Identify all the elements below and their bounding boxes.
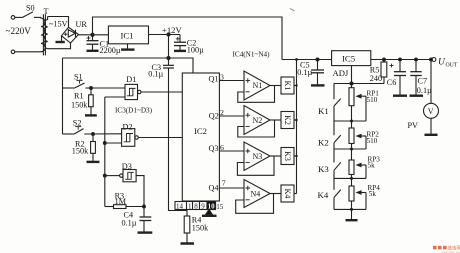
resistor R3 <box>105 205 144 209</box>
C6 plus mark <box>390 64 394 68</box>
switch S1 <box>63 83 126 88</box>
node C7 junction <box>415 58 418 61</box>
watermark logo <box>433 245 460 253</box>
node DC+ junction <box>91 33 94 36</box>
node C3 junction <box>167 56 170 59</box>
svg-text:Q2: Q2 <box>209 111 219 120</box>
wire +12V logic rail <box>63 58 194 73</box>
svg-text:K2: K2 <box>283 115 292 125</box>
node R5 top junction <box>383 58 386 61</box>
resistor R2 <box>91 134 96 161</box>
op-amp N3 <box>244 142 270 171</box>
svg-text:15: 15 <box>216 203 224 211</box>
node +12V junction <box>167 33 170 36</box>
svg-text:0.1µ: 0.1µ <box>122 218 137 227</box>
svg-text:5k: 5k <box>368 161 376 169</box>
svg-text:~15V: ~15V <box>49 20 68 29</box>
svg-text:T: T <box>44 7 49 16</box>
node D3 input junction <box>103 174 106 177</box>
scan mark top <box>290 9 295 12</box>
wire PV to ground <box>430 118 432 134</box>
svg-text:+12V: +12V <box>162 25 182 35</box>
regulator IC1 <box>108 26 148 44</box>
AC input terminal bottom <box>11 50 15 54</box>
ground at R2 <box>87 161 100 163</box>
svg-text:N2: N2 <box>253 116 263 125</box>
node C5 junction <box>316 58 319 61</box>
svg-text:510: 510 <box>367 96 378 104</box>
relay coil K1 <box>281 77 294 94</box>
node R2 junction <box>92 133 95 136</box>
svg-text:N3: N3 <box>253 152 263 161</box>
svg-text:510: 510 <box>367 137 378 145</box>
svg-text:10: 10 <box>208 203 216 211</box>
svg-text:14: 14 <box>176 203 184 211</box>
svg-text:D2: D2 <box>123 122 133 131</box>
gate D3 <box>120 170 137 182</box>
node R1 junction <box>90 87 93 90</box>
wire N4 feedback loop <box>236 194 274 214</box>
svg-text:K3: K3 <box>318 164 329 174</box>
gate D2 <box>122 129 139 147</box>
wire AC top lead <box>15 16 23 18</box>
svg-text:9: 9 <box>201 203 205 211</box>
ground at IC2 pins 8 9 10 <box>202 210 217 216</box>
svg-text:K1: K1 <box>318 106 329 116</box>
transformer T secondary winding <box>45 17 48 49</box>
potentiometer RP3 <box>349 149 366 178</box>
resistor R5 <box>381 60 387 84</box>
svg-text:S0: S0 <box>26 4 35 13</box>
svg-text:~220V: ~220V <box>6 26 32 36</box>
svg-text:C6: C6 <box>387 78 397 87</box>
svg-text:V: V <box>428 107 434 116</box>
ground at C6 <box>393 94 407 96</box>
ground at C1 <box>87 50 99 52</box>
svg-text:1M: 1M <box>115 197 127 206</box>
counter IC2 <box>182 73 219 201</box>
wire IC2 Q2 pin2 <box>219 115 244 117</box>
potentiometer RP2 <box>349 121 366 149</box>
wire D1 lower input <box>105 96 125 98</box>
wire D2 lower input <box>105 142 122 144</box>
svg-text:OUT: OUT <box>446 62 458 68</box>
relay coil K2 <box>281 112 294 129</box>
svg-text:IC1: IC1 <box>121 31 134 41</box>
svg-text:Q1: Q1 <box>209 75 219 84</box>
wire bridge plus to IC1 <box>79 34 109 36</box>
contact K1 <box>334 99 341 121</box>
potentiometer RP4 <box>349 178 366 209</box>
wire IC2 Q1 pin3 <box>219 80 244 82</box>
wire D2 output to IC2 <box>138 137 182 139</box>
wire IC1 output <box>149 34 181 36</box>
node C6 junction <box>399 58 402 61</box>
wire N3 output <box>270 155 281 157</box>
svg-text:K3: K3 <box>283 151 292 161</box>
wire ADJ node horizontal <box>334 83 384 85</box>
ground at bridge minus <box>56 36 65 42</box>
S2 button mark <box>75 127 81 130</box>
wire K2 to supply rail <box>294 119 297 121</box>
svg-text:R1: R1 <box>74 92 84 101</box>
svg-text:0.1µ: 0.1µ <box>297 68 312 77</box>
wire node2 <box>334 148 366 150</box>
transformer T core <box>43 14 45 55</box>
svg-text:6: 6 <box>220 143 224 152</box>
wire +12V drop to logic rail <box>168 35 170 59</box>
wire to voltmeter PV <box>430 60 432 104</box>
IC3 input bus vertical <box>104 97 106 207</box>
wire IC5 output <box>371 59 432 61</box>
op-amp N4 <box>244 180 270 208</box>
potentiometer RP1 <box>349 88 366 121</box>
capacitor C4 <box>140 217 152 232</box>
svg-text:S2: S2 <box>73 118 82 127</box>
bridge rectifier UR diamond <box>62 27 79 43</box>
AC input terminal top <box>11 16 15 20</box>
svg-text:150k: 150k <box>192 224 209 233</box>
transformer T primary winding <box>41 17 45 51</box>
IC1 ground pin <box>121 44 135 50</box>
wire secondary bottom to bridge <box>48 43 71 49</box>
svg-text:5k: 5k <box>369 190 377 198</box>
wire D3 input <box>105 175 120 177</box>
svg-text:2200µ: 2200µ <box>100 46 121 55</box>
op-amp N2 <box>244 106 270 135</box>
svg-text:K1: K1 <box>283 81 292 91</box>
wire N2 feedback loop <box>238 120 275 137</box>
svg-text:8: 8 <box>194 203 198 211</box>
svg-text:Q4: Q4 <box>209 184 219 193</box>
svg-text:K4: K4 <box>283 189 292 199</box>
svg-text:IC5: IC5 <box>342 53 356 63</box>
capacitor C5 <box>311 60 324 85</box>
ground at R4 <box>181 242 195 245</box>
bridge diode symbol <box>68 30 75 37</box>
wire D3 output down <box>136 176 144 217</box>
wire node3 <box>334 177 366 179</box>
relay coil K4 <box>281 185 294 202</box>
svg-text:D3: D3 <box>122 162 132 171</box>
ground at RP chain <box>346 209 358 220</box>
switch S2 <box>63 129 122 134</box>
svg-text:150k: 150k <box>72 146 89 155</box>
wire node1 <box>334 120 366 122</box>
svg-text:2: 2 <box>220 108 224 117</box>
label Uout <box>438 57 458 68</box>
wire K3 to supply rail <box>294 155 297 157</box>
wire relay supply rail <box>296 60 298 194</box>
svg-text:N1: N1 <box>253 81 263 90</box>
output terminal Uout <box>432 58 436 62</box>
ground at C7 <box>410 94 424 96</box>
wire raw DC riser to top rail <box>93 17 283 60</box>
bridge plus mark <box>64 33 67 36</box>
C2 plus mark <box>176 37 180 41</box>
wire N1 feedback loop <box>238 86 275 103</box>
ground at C4 <box>138 231 153 233</box>
svg-text:240: 240 <box>370 74 382 83</box>
node relay rail junctions <box>295 58 298 157</box>
wire N3 feedback loop <box>237 156 274 175</box>
svg-text:D1: D1 <box>126 75 136 84</box>
ground at C2 <box>174 50 186 52</box>
svg-text:150k: 150k <box>71 100 88 109</box>
ground at PV <box>425 134 438 136</box>
wire N1 output <box>270 85 281 87</box>
C1 plus mark <box>87 36 91 40</box>
svg-text:IC4(N1~N4): IC4(N1~N4) <box>233 50 271 58</box>
relay contact chain vertical <box>333 84 335 100</box>
wire D1 output to IC2 <box>141 91 182 93</box>
node RP chain junctions <box>350 120 353 211</box>
wire chain bottom node <box>334 208 366 210</box>
ground at C5 <box>311 84 325 86</box>
svg-text:K4: K4 <box>318 190 329 200</box>
resistor R4 <box>184 210 190 243</box>
svg-text:N4: N4 <box>251 189 261 198</box>
capacitor C3 <box>163 58 174 68</box>
wire K1 to supply rail <box>294 85 297 87</box>
gate D1 <box>125 84 141 99</box>
node ADJ junction <box>350 82 353 85</box>
svg-text:S1: S1 <box>74 72 83 81</box>
wire raw supply rail to IC5 <box>282 59 332 61</box>
contact K4 <box>334 178 341 209</box>
node PV junction <box>430 58 433 61</box>
wire IC2 Q3 pin6 <box>219 150 244 152</box>
relay coil K3 <box>281 148 294 165</box>
capacitor C2 <box>174 35 186 51</box>
contact K2 <box>334 121 341 149</box>
svg-text:0.1µ: 0.1µ <box>417 86 432 95</box>
wire IC2 Q4 pin7 <box>219 187 244 189</box>
svg-text:IC3(D1~D3): IC3(D1~D3) <box>115 106 153 114</box>
voltmeter PV <box>424 103 439 118</box>
left pullup rail <box>62 58 64 134</box>
wire IC5 ADJ pin <box>351 66 353 88</box>
wire C3 to pin14 <box>169 68 188 211</box>
svg-text:100µ: 100µ <box>187 45 204 54</box>
wire K4 to supply rail <box>294 193 297 195</box>
svg-text:3: 3 <box>220 72 224 81</box>
svg-text:0.1µ: 0.1µ <box>148 69 163 78</box>
wire N4 output <box>270 193 281 195</box>
svg-text:1: 1 <box>188 203 192 211</box>
ground at R1 <box>85 114 97 116</box>
svg-text:UR: UR <box>76 20 88 29</box>
svg-text:K2: K2 <box>318 137 329 147</box>
op-amp N1 <box>244 71 270 100</box>
S1 button mark <box>77 81 83 84</box>
wire AC bottom lead <box>15 51 41 53</box>
resistor R1 <box>89 88 94 114</box>
switch S0 <box>23 12 42 18</box>
IC2 bottom pin strip <box>175 202 216 210</box>
wire secondary top to bridge <box>48 17 69 28</box>
svg-text:7: 7 <box>222 178 226 187</box>
node D2 lower junction <box>103 142 106 145</box>
capacitor C1 <box>87 35 99 50</box>
svg-text:ADJ: ADJ <box>333 68 349 78</box>
svg-text:IC2: IC2 <box>194 126 207 136</box>
svg-text:Q3: Q3 <box>209 144 219 153</box>
contact K3 <box>334 149 341 178</box>
capacitor C7 <box>410 60 421 95</box>
wire N2 output <box>270 119 281 121</box>
capacitor C6 <box>394 60 406 95</box>
svg-text:C7: C7 <box>418 76 428 85</box>
svg-text:PV: PV <box>408 121 419 130</box>
node R3 C4 junction <box>143 205 146 208</box>
regulator IC5 <box>332 51 371 66</box>
